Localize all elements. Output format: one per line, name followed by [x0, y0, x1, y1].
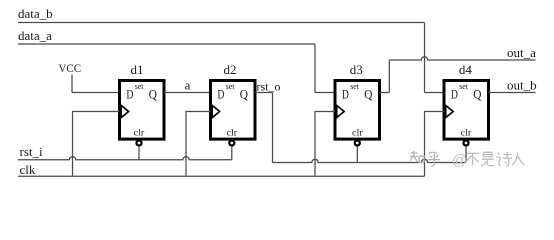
wire clk riser to d2 clock	[186, 112, 211, 177]
wire d3 clr bubble drop to rst_o rail	[356, 146, 358, 162]
d2 body	[211, 81, 256, 140]
wire data_b horizontal	[18, 22, 425, 24]
wire rst_o rail with hops over clk verticals	[273, 159, 467, 162]
wire a : d1.Q to d2.D	[164, 92, 211, 94]
d4 clock triangle	[446, 105, 453, 117]
svg-text:d4: d4	[459, 62, 473, 77]
wire clk riser to d4 clock	[425, 112, 445, 177]
watermark 诗	[497, 152, 513, 166]
svg-text:a: a	[185, 78, 191, 93]
wire data_a vertical	[314, 44, 316, 93]
wire out_a horizontal with hop over data_b vertical	[389, 57, 535, 60]
svg-text:d1: d1	[131, 62, 144, 77]
d4 body	[444, 81, 489, 140]
svg-text:set: set	[135, 82, 145, 91]
svg-text:data_b: data_b	[18, 6, 53, 21]
flip-flop d2	[211, 62, 256, 146]
wire rst_o vertical drop	[272, 93, 274, 163]
svg-text:rst_i: rst_i	[20, 144, 44, 159]
d2 clr bubble	[229, 141, 234, 146]
wire clk rail	[18, 175, 425, 177]
d1 body	[120, 81, 165, 140]
flip-flop d1	[120, 62, 165, 146]
svg-text:D: D	[126, 86, 133, 101]
wire clk riser to d3 clock	[315, 112, 335, 177]
svg-text:clr: clr	[227, 127, 238, 137]
svg-text:set: set	[459, 82, 469, 91]
wire data_b vertical	[424, 23, 426, 93]
svg-text:out_a: out_a	[507, 45, 536, 60]
wire data_a to d3 D input	[315, 92, 335, 94]
svg-text:Q: Q	[473, 86, 482, 101]
svg-text:clr: clr	[461, 127, 472, 137]
wire rst_o rail up to d4 clr bubble	[465, 146, 467, 162]
svg-text:rst_o: rst_o	[257, 79, 281, 93]
d2 clock triangle	[212, 105, 219, 117]
svg-text:Q: Q	[149, 86, 158, 101]
wire d3.Q to out_a riser	[379, 92, 389, 94]
d1 clock triangle	[121, 105, 128, 117]
wire clk riser to d1 clock	[73, 112, 120, 177]
svg-text:d2: d2	[224, 62, 237, 77]
svg-text:set: set	[226, 82, 236, 91]
flip-flop d3	[335, 62, 380, 146]
svg-text:d3: d3	[350, 62, 363, 77]
wire rst_i rail with hops over clk verticals	[18, 157, 232, 160]
svg-text:D: D	[342, 86, 349, 101]
wire VCC vertical	[71, 75, 73, 93]
wire data_b to d4 D input	[425, 92, 445, 94]
d3 clock triangle	[337, 105, 344, 117]
svg-text:@: @	[452, 152, 467, 169]
wire rst_o from d2.Q	[255, 92, 273, 94]
wire out_a vertical	[388, 60, 390, 93]
wire data_a horizontal	[18, 43, 315, 45]
svg-text:data_a: data_a	[18, 28, 52, 43]
svg-text:D: D	[451, 86, 458, 101]
svg-text:set: set	[350, 82, 360, 91]
svg-text:Q: Q	[240, 86, 249, 101]
svg-text:clk: clk	[20, 162, 36, 177]
watermark 是	[481, 152, 494, 166]
svg-text:clr: clr	[134, 127, 145, 137]
watermark 人	[512, 153, 524, 166]
wire out_b from d4.Q	[489, 92, 536, 94]
watermark 乎	[428, 152, 441, 166]
wire VCC to d1 D input	[72, 92, 120, 94]
wire d1 clr bubble drop to rst_i rail	[138, 146, 140, 160]
svg-text:out_b: out_b	[507, 77, 537, 92]
d3 clr bubble	[355, 141, 360, 146]
svg-text:clr: clr	[352, 127, 363, 137]
svg-text:Q: Q	[364, 86, 373, 101]
d4 clr bubble	[464, 141, 469, 146]
svg-text:VCC: VCC	[59, 61, 82, 75]
svg-text:D: D	[217, 86, 224, 101]
watermark 不	[466, 153, 479, 165]
d1 clr bubble	[137, 141, 142, 146]
flip-flop d4	[444, 62, 489, 146]
wire rst_i rail up to d2 clr bubble	[231, 146, 233, 160]
d3 body	[335, 81, 380, 140]
watermark 知	[410, 151, 424, 162]
